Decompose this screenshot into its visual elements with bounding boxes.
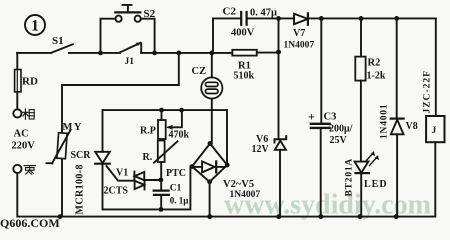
terminal neutral [13, 165, 21, 173]
flyback diode V8 1N4001 [396, 18, 398, 118]
svg-text:1-2k: 1-2k [367, 71, 386, 82]
svg-text:1N4007: 1N4007 [230, 190, 261, 200]
fuse resistor RD [15, 53, 21, 109]
thyristor SCR MCR100-8 [95, 152, 134, 210]
socket CZ [201, 53, 222, 144]
svg-text:J1: J1 [125, 57, 135, 67]
svg-text:PTC: PTC [166, 168, 186, 179]
svg-text:MY: MY [63, 122, 84, 133]
svg-text:0. 47μ: 0. 47μ [250, 8, 277, 19]
svg-text:CZ: CZ [192, 66, 207, 77]
svg-text:J: J [432, 126, 437, 136]
hanzi xiang [23, 109, 34, 119]
capacitor C1 0.1u [154, 191, 169, 195]
svg-text:S1: S1 [52, 35, 64, 47]
svg-text:BT201A: BT201A [345, 158, 355, 197]
svg-text:2CTS: 2CTS [104, 186, 129, 197]
bridge rectifier V2~V5 [192, 144, 227, 182]
svg-text:470k: 470k [169, 130, 190, 141]
node dot after V7 (C3 tap) [319, 16, 324, 21]
resistor R2 1-2k [360, 18, 362, 56]
svg-text:400V: 400V [231, 28, 255, 39]
zener V6 12V column [278, 18, 280, 139]
svg-text:+: + [308, 110, 315, 124]
switch S1 [17, 44, 120, 53]
svg-text:200μ/: 200μ/ [329, 124, 353, 135]
pushbutton S2 [101, 5, 155, 53]
svg-text:V8: V8 [406, 121, 418, 132]
svg-text:1: 1 [31, 18, 39, 35]
svg-text:1N4001: 1N4001 [380, 104, 390, 139]
electrolytic C3 200u/25V [320, 18, 322, 122]
svg-text:AC: AC [14, 129, 29, 140]
svg-text:V1: V1 [116, 168, 128, 179]
potentiometer RP 470k [158, 110, 182, 139]
svg-text:220V: 220V [12, 141, 36, 152]
svg-text:C3: C3 [324, 112, 337, 123]
terminal phase (live) [13, 109, 21, 117]
wire C2 branch down to J1 rail [212, 18, 214, 53]
svg-text:JZC-22F: JZC-22F [423, 70, 433, 113]
hanzi ling [24, 166, 35, 175]
svg-text:MCR100-8: MCR100-8 [75, 164, 86, 214]
svg-text:LED: LED [364, 179, 388, 190]
svg-text:V7: V7 [293, 28, 305, 39]
bridge bottom to rail [209, 182, 211, 217]
svg-text:R.: R. [143, 152, 153, 163]
svg-text:V2~V5: V2~V5 [223, 179, 254, 190]
LED BT201A [355, 151, 380, 216]
svg-text:R2: R2 [368, 58, 381, 69]
node dot V8 tap [394, 16, 399, 21]
node dot C2/V6 top [276, 16, 281, 21]
relay coil J (JZC-22F) [435, 18, 437, 116]
resistor R1 510k [232, 50, 278, 56]
svg-text:SCR: SCR [71, 150, 92, 161]
diode V7 1N4007 [294, 13, 308, 24]
J1 rail to CZ/C2 node and R1 [141, 52, 232, 54]
svg-text:510k: 510k [234, 71, 255, 82]
control top wire node [103, 110, 228, 165]
neutral wire down to bottom rail [17, 173, 434, 217]
trigger diode V1 2CTS [134, 172, 160, 190]
capacitor C2 [241, 12, 246, 25]
svg-text:25V: 25V [330, 135, 348, 146]
svg-text:0. 1μ: 0. 1μ [170, 195, 189, 205]
relay contact J1 [120, 42, 141, 53]
svg-text:C2: C2 [223, 6, 237, 18]
svg-text:12V: 12V [252, 144, 270, 155]
control return wire [103, 167, 191, 210]
thermistor R PTC [154, 141, 178, 190]
figure number circle 1 [25, 15, 45, 35]
top rail wire (C2/V7 rail) [213, 17, 436, 19]
svg-text:R.P: R.P [140, 126, 156, 137]
svg-text:RD: RD [22, 76, 38, 88]
svg-text:C1: C1 [170, 183, 182, 193]
svg-text:Q606.COM: Q606.COM [0, 216, 60, 229]
svg-text:1N4007: 1N4007 [284, 41, 315, 51]
svg-text:S2: S2 [144, 8, 156, 20]
varistor MY branch wire [62, 53, 179, 217]
varistor MY [47, 130, 71, 163]
node dot R2 tap [359, 16, 364, 21]
